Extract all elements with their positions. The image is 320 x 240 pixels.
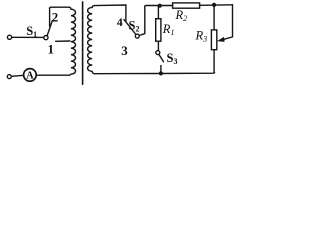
svg-text:R3: R3 [195,29,208,44]
svg-text:4: 4 [117,15,123,29]
svg-text:S3: S3 [167,51,178,66]
svg-text:A: A [26,71,34,82]
svg-text:R1: R1 [162,22,175,37]
svg-text:1: 1 [48,42,55,57]
svg-text:3: 3 [121,43,128,58]
svg-text:2: 2 [52,10,59,25]
svg-text:S2: S2 [129,19,140,34]
svg-text:R2: R2 [175,8,188,23]
svg-text:S1: S1 [26,24,37,39]
